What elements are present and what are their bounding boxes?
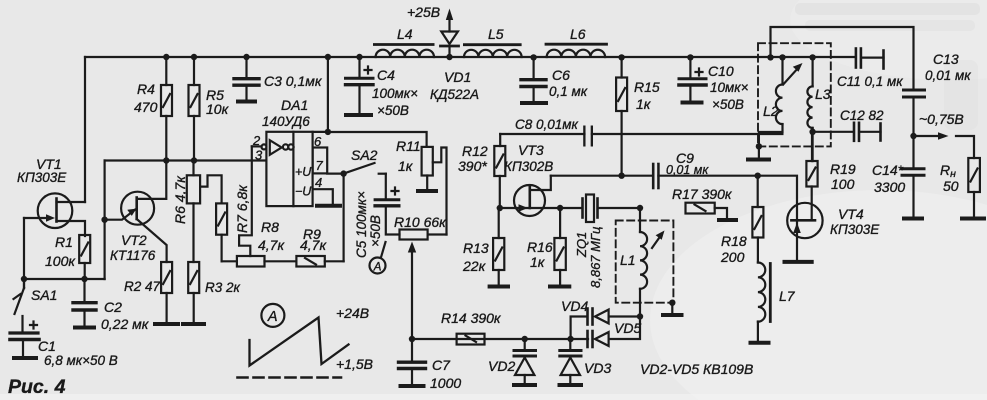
resistor R17 390k [686,203,737,220]
svg-text:С8 0,01мк: С8 0,01мк [515,117,579,132]
resistor R2 47 [155,262,178,324]
screened box L1 (dashed) [616,221,674,303]
svg-text:×50В: ×50В [712,97,744,112]
svg-text:100: 100 [831,176,855,192]
svg-text:+U: +U [295,165,312,179]
resistor R5 10k [189,57,200,161]
svg-text:С4: С4 [377,67,395,83]
svg-text:L2: L2 [763,103,779,119]
svg-text:R11: R11 [396,138,421,154]
capacitor C1 6.8uF (electrolytic, + top) [10,322,39,359]
svg-text:R19: R19 [830,161,856,177]
node: VT2 emitter junction [101,217,107,223]
inductor L7 with core [751,263,771,343]
svg-text:КП303Е: КП303Е [830,222,880,237]
svg-text:R6 4,7к: R6 4,7к [172,175,188,224]
svg-text:L3: L3 [815,86,831,102]
svg-text:R14 390к: R14 390к [441,310,502,326]
svg-text:2: 2 [252,133,261,148]
svg-text:КП303Е: КП303Е [17,170,67,185]
wire: C9 drain net (y=175.7) [551,176,797,221]
node: VD3 / VD4 junction [567,336,573,342]
node: ZQ1 / L1 junction [637,205,643,211]
inductor L6 [546,44,607,57]
svg-text:R12: R12 [462,143,488,159]
wire: pin6 net to R11 [328,132,427,147]
svg-text:С7: С7 [432,357,451,373]
wire: main +25V top rail [85,56,855,58]
node: VD4 / L1 junction [637,313,643,319]
svg-text:КП302В: КП302В [504,159,553,174]
ground: screen of L2/L3 [748,146,769,159]
svg-text:R2 47: R2 47 [124,279,161,294]
resistor R13 22k [490,208,508,287]
svg-text:С5 100мк×: С5 100мк× [354,191,369,258]
svg-text:R16: R16 [527,239,553,255]
svg-text:+24В: +24В [336,305,369,321]
switch SA2 [344,163,386,174]
svg-text:R15: R15 [634,79,660,95]
svg-text:VD2: VD2 [488,358,515,374]
svg-text:VT3: VT3 [518,142,544,158]
svg-text:Рис. 4: Рис. 4 [8,376,66,398]
capacitor C14* 3300 [902,136,924,219]
capacitor C10 10uF (electrolytic) [679,58,706,103]
node A circle (waveform label) [261,304,284,327]
svg-text:VD1: VD1 [444,69,471,85]
resistor R1 100k [79,235,90,279]
DA1 pin7 box [313,148,344,174]
svg-text:С12 82: С12 82 [840,108,884,123]
transistor VT1 KP303E [24,193,85,288]
capacitor C9 0.01uF [653,164,658,188]
svg-text:L5: L5 [488,26,504,42]
svg-text:R10 66к: R10 66к [394,214,447,230]
wire: L2 bottom to C8 net and screen ground [759,132,783,146]
svg-text:С11 0,1 мк: С11 0,1 мк [837,74,903,89]
svg-text:R4: R4 [137,81,155,97]
svg-text:×50В: ×50В [368,215,383,247]
variable-tuning arrow for L2/L3 [783,67,799,85]
capacitor C2 0.22uF [73,279,96,328]
resistor R16 1k [550,208,569,287]
svg-text:50: 50 [943,178,959,194]
node: R15 / drain net junction [618,173,624,179]
svg-text:140УД6: 140УД6 [262,114,310,129]
svg-text:1к: 1к [530,254,546,270]
svg-text:SA1: SA1 [31,287,57,303]
resistor R8 4.7k trimmer [222,256,297,267]
svg-text:100к: 100к [45,253,76,269]
node: rail junctions [163,54,169,60]
svg-text:L1: L1 [620,252,636,268]
svg-text:КТ1176: КТ1176 [110,248,156,263]
inductor L2 [776,58,783,132]
node: VT3 source / R16 junction [557,205,563,211]
resistor R3 2k [183,262,204,324]
svg-text:4,7к: 4,7к [258,237,285,253]
varicap VD2 KV109V [514,339,536,385]
svg-text:10к: 10к [206,101,230,117]
svg-text:1000: 1000 [430,375,461,391]
svg-text:~0,75В: ~0,75В [919,111,964,127]
capacitor C3 0.1uF [234,57,259,102]
svg-text:10мк×: 10мк× [710,80,749,95]
svg-text:200: 200 [720,249,745,265]
svg-text:VD2-VD5 КВ109В: VD2-VD5 КВ109В [640,361,753,377]
resistor R7 6.8k [216,203,227,261]
transistor VT4 KP303E [785,187,823,262]
svg-text:А: А [267,309,278,325]
quartz ZQ1 8.867MHz [583,195,641,223]
svg-text:R7 6,8к: R7 6,8к [234,184,250,233]
capacitor C5 100uF (electrolytic) [375,174,399,235]
node: bottom row junctions [21,276,27,282]
resistor R18 200 [752,176,763,263]
capacitor C13 0.01uF [904,90,925,136]
svg-text:КД522А: КД522А [430,87,479,102]
svg-text:8,867 МГц: 8,867 МГц [588,227,603,288]
wire: DA1 pin6 stub and riser to rail [313,57,328,132]
wire: op-amp input net (pin 3 row) [105,159,267,161]
svg-text:С6: С6 [552,67,570,83]
svg-text:−U: −U [295,185,312,199]
svg-text:100мк×: 100мк× [372,86,418,101]
wire: SA2/pin7 node down to R9 [343,174,345,262]
screened box L2/L3 (dashed) [758,43,831,146]
svg-text:VT2: VT2 [121,232,147,248]
resistor R11 1k trimmer [418,147,447,235]
svg-text:DA1: DA1 [281,97,308,113]
resistor R6 4.7k trimmer [187,161,222,263]
varicap VD5 KV109V (on row) [588,317,641,348]
capacitor C8 0.01uF [583,126,593,147]
inductor L4 [374,45,434,58]
node: VT3 gate junction [497,205,503,211]
resistor R4 470 [161,57,172,161]
svg-text:22к: 22к [462,258,487,274]
svg-text:+1,5В: +1,5В [336,356,373,372]
svg-text:VD4: VD4 [561,298,588,314]
wire: C8 coupling net (y=134) [500,133,782,135]
node: DA1 pin6 junction [325,129,331,135]
svg-text:VD3: VD3 [584,360,611,376]
node: L1 screen corner junction [669,300,675,306]
svg-text:L7: L7 [779,288,796,304]
varicap VD4 KV109V (upper branch) [571,309,640,340]
op-amp DA1 140UD6 [252,132,313,206]
resistor Rn 50 (load) [962,158,984,219]
variable-tuning arrow for L1 [652,235,662,249]
node: C7 / R10 wiper junction [409,336,415,342]
svg-text:0,01 мк: 0,01 мк [925,68,971,83]
svg-text:4,7к: 4,7к [300,237,327,253]
capacitor C12 82 [854,123,881,141]
wire: DA1 pin2 feedback drop to R8 wiper [239,146,252,256]
svg-text:А: А [373,261,382,273]
waveform: sawtooth sketch [250,318,349,366]
output arrow ~0.75V [914,136,975,158]
capacitor C4 100uF (electrolytic) [346,57,374,115]
svg-text:VD5: VD5 [614,320,641,336]
svg-text:L6: L6 [570,26,586,42]
wire: bottom common wire (SA1 row) [24,278,105,280]
wire: varicap row R14 net (y=339) [412,338,588,340]
svg-text:ZQ1: ZQ1 [574,232,589,258]
resistor R19 100 [806,132,817,187]
svg-text:R18: R18 [721,233,747,249]
svg-text:R17 390к: R17 390к [672,186,733,202]
switch SA1 [14,279,25,331]
svg-text:3300: 3300 [874,179,905,195]
capacitor C7 1000 [399,339,426,386]
svg-text:SA2: SA2 [351,147,378,163]
wire: vertical from pin3 net down to emitter and bottom row [103,161,105,280]
inductor L5 [464,45,522,57]
svg-text:0,01 мк: 0,01 мк [666,163,709,177]
wire: oscillator gate/source row (y=208) [500,207,582,209]
node A circle (wire label) [370,242,386,274]
transistor VT2 KT117B unijunction [105,161,167,263]
svg-text:1к: 1к [398,158,414,174]
svg-text:R3 2к: R3 2к [205,280,241,295]
svg-text:R8: R8 [261,219,279,235]
svg-text:R13: R13 [463,240,489,256]
svg-text:С3 0,1мк: С3 0,1мк [264,73,323,89]
svg-text:С1: С1 [38,338,56,354]
ground: screen of L1 [663,303,682,315]
svg-text:С13: С13 [933,51,959,67]
inductor L3 [807,58,812,132]
wire: top-right link to C13 [771,27,914,88]
inductor L1 [640,208,647,317]
svg-text:0,22 мк: 0,22 мк [101,316,150,332]
varicap VD3 KV109V [560,339,582,385]
svg-text:С10: С10 [708,63,734,79]
node: output junction [910,133,916,139]
svg-text:L4: L4 [397,26,413,42]
waveform baseline (dashed) [238,376,342,379]
svg-text:6,8 мк×50 В: 6,8 мк×50 В [44,353,118,368]
node: VD2 junction [522,336,528,342]
svg-text:7: 7 [316,158,324,173]
DA1 pin4 lead and ground [313,189,340,206]
capacitor C6 0.1uF [521,58,546,103]
wire: left drop rail to VT1 drain [84,57,86,202]
resistor R15 1k [616,58,627,176]
node: pin3 input net junctions [163,157,169,163]
resistor R9 4.7k [296,256,343,267]
svg-text:С2: С2 [104,299,122,315]
svg-text:4: 4 [315,175,322,190]
node: screen ground junction [756,143,762,149]
resistor R14 390k [457,334,485,345]
svg-text:×50В: ×50В [377,103,409,118]
svg-text:0,1 мк: 0,1 мк [549,84,588,99]
node: SA2 / pin7 junction [340,170,346,176]
svg-text:1к: 1к [636,96,652,112]
svg-text:VT4: VT4 [838,206,864,222]
svg-text:+25В: +25В [407,4,440,20]
capacitor C11 0.1uF [856,49,884,69]
svg-text:R1: R1 [55,234,73,250]
resistor R10 66k potentiometer [400,230,447,340]
svg-text:390*: 390* [458,158,487,174]
diode VD1 KD522A with +25V arrow [441,19,459,57]
wire: L3 bottom to C12 and R19 [813,132,853,161]
svg-text:С14*: С14* [872,162,904,178]
svg-text:3: 3 [255,148,263,163]
svg-text:6: 6 [314,134,322,149]
node: L3 bottom junction [809,129,815,135]
node: R18 / drain net junction [755,173,761,179]
transistor VT3 KP302V [514,176,551,216]
resistor R12 390 [494,134,505,208]
svg-text:470: 470 [134,99,158,115]
